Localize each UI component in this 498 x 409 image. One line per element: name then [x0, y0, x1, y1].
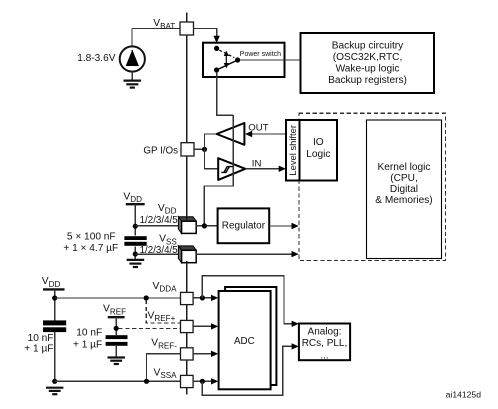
svg-text:Logic: Logic: [306, 149, 330, 160]
wire switch supply to IO buffers and VDD rail: [204, 72, 233, 226]
wire junction to IN buffer: [205, 149, 219, 169]
power switch box: [203, 43, 285, 77]
svg-text:Regulator: Regulator: [222, 221, 266, 232]
wire VDDA to analog block: [202, 276, 293, 324]
ground battery: [124, 81, 142, 88]
ground bottom left: [46, 388, 63, 395]
ground C3: [108, 358, 125, 365]
schmitt hysteresis glyph: [221, 167, 234, 173]
arrowhead OUT: [245, 131, 252, 137]
pin VSSA: [181, 375, 194, 387]
svg-text:(OSC32K,RTC,: (OSC32K,RTC,: [333, 52, 403, 63]
junction ground bottom: [52, 379, 57, 384]
svg-text:Wake-up logic: Wake-up logic: [336, 63, 400, 74]
svg-text:ADC: ADC: [234, 336, 255, 347]
svg-text:VREF: VREF: [103, 304, 126, 317]
power switch toggle arrow: [224, 51, 229, 69]
label kernel logic: [375, 162, 432, 206]
svg-text:Backup circuitry: Backup circuitry: [332, 40, 404, 51]
dashed VREF to VREF+: [119, 327, 181, 329]
svg-text:IN: IN: [252, 158, 262, 169]
svg-text:& Memories): & Memories): [375, 195, 432, 206]
wire bus VBAT to GP I/Os: [186, 35, 188, 143]
capacitor C3 (10nF + 1uF): [106, 335, 128, 346]
arrowhead VSS: [292, 251, 299, 257]
junction VDD bottom: [52, 295, 57, 300]
wire regulator to kernel: [269, 225, 293, 227]
wire bus VREF+ to VREF-: [186, 333, 188, 348]
wire bus GP to VDD pin: [186, 156, 188, 221]
power switch bottom contact: [214, 67, 219, 72]
junction VSSA right: [200, 379, 205, 384]
ground C1: [127, 260, 145, 267]
svg-text:10 nF: 10 nF: [28, 333, 54, 344]
wire VSS junction to pin: [135, 253, 181, 255]
arrowhead VSSA analog: [292, 343, 299, 349]
op-amp OUT buffer: [217, 123, 245, 145]
svg-text:...: ...: [320, 351, 328, 362]
wire power switch to backup circuitry: [240, 59, 301, 61]
svg-text:VDD: VDD: [158, 203, 177, 216]
wire VDDA to ADC: [193, 297, 212, 299]
rail VDD bottom: [43, 288, 65, 290]
ADC back rectangle: [225, 287, 276, 385]
pin VDD 1-5 (cube): [178, 217, 196, 234]
arrowhead into power switch: [213, 36, 219, 43]
svg-text:Analog:: Analog:: [308, 327, 342, 338]
node VBAT pin: [180, 22, 194, 35]
svg-text:+ 1 µF: + 1 µF: [73, 340, 102, 351]
svg-text:OUT: OUT: [248, 122, 268, 133]
wire VDDA line: [55, 297, 181, 299]
svg-text:1/2/3/4/5: 1/2/3/4/5: [140, 215, 179, 226]
wire battery to ground: [131, 72, 133, 81]
wire VREF- to ADC: [193, 353, 212, 355]
pin VREF+: [181, 320, 194, 332]
wire supply through buffers: [232, 117, 234, 185]
wire IN to level shifter: [245, 168, 279, 170]
svg-text:VDDA: VDDA: [153, 281, 178, 294]
power switch common contact: [235, 57, 240, 62]
dashed VDDA to VREF+: [146, 300, 180, 323]
wire VREF down: [115, 317, 117, 335]
svg-text:VREF-: VREF-: [151, 338, 177, 351]
junction VREF+ tap: [144, 295, 149, 300]
junction VDDA right: [200, 295, 205, 300]
junction VREF- ground: [144, 379, 149, 384]
power switch lever: [217, 60, 238, 70]
capacitor C2 (10nF + 1uF): [43, 320, 66, 332]
op-amp IN buffer (schmitt): [218, 158, 245, 180]
junction VSS: [133, 251, 138, 256]
svg-text:Level shifter: Level shifter: [287, 125, 298, 176]
pin VSS 1-5 (cube): [178, 246, 196, 263]
arrowhead VDDA ADC: [211, 295, 218, 301]
arrowhead IN: [279, 166, 286, 172]
svg-text:VDD: VDD: [123, 191, 142, 204]
label analog: [302, 327, 348, 362]
svg-text:Kernel logic: Kernel logic: [378, 162, 431, 173]
wire VDD pin to regulator: [196, 225, 217, 227]
svg-text:1.8-3.6V: 1.8-3.6V: [77, 53, 116, 64]
rail VDD mid: [126, 203, 145, 205]
pin VDDA: [181, 292, 194, 304]
svg-text:Backup registers): Backup registers): [328, 75, 407, 86]
arrowhead VSSA ADC: [211, 378, 218, 384]
level shifter block: [286, 120, 300, 181]
wire bus VREF- to VSSA: [186, 360, 188, 375]
node GP I/Os pin: [181, 143, 194, 156]
svg-text:Digital: Digital: [390, 184, 418, 195]
capacitor C1 (5x100nF + 4.7uF): [124, 236, 146, 246]
wire bus VSSA stub: [186, 388, 188, 395]
svg-text:RCs, PLL,: RCs, PLL,: [302, 338, 348, 349]
wire cap to ground: [134, 246, 136, 259]
wire VSSA to ADC: [193, 380, 212, 382]
label backup circuitry: [328, 40, 407, 86]
junction VDD: [133, 224, 138, 229]
wire OUT from level shifter: [251, 133, 286, 135]
pin VREF-: [181, 348, 194, 360]
svg-text:1/2/3/4/5: 1/2/3/4/5: [140, 245, 179, 256]
junction GP I/O: [202, 147, 207, 152]
wire VSSA to analog block: [202, 346, 293, 395]
kernel logic block: [367, 120, 442, 259]
svg-text:GP I/Os: GP I/Os: [143, 146, 178, 157]
wire VDD junction to pin: [135, 225, 181, 227]
svg-text:+ 1 µF: + 1 µF: [24, 343, 53, 354]
power switch dashed position: [219, 50, 234, 57]
wire VBAT stub: [186, 13, 188, 24]
svg-text:VREF+: VREF+: [148, 310, 176, 323]
wire VSSA line: [55, 380, 181, 382]
power switch top contact: [214, 46, 219, 51]
ADC front rectangle: [219, 291, 271, 389]
svg-text:Power switch: Power switch: [240, 51, 281, 58]
svg-text:10 nF: 10 nF: [76, 328, 102, 339]
wire C3 to ground: [115, 346, 117, 357]
IO logic block: [300, 120, 338, 181]
wire bus VDDA to VREF+: [186, 305, 188, 321]
rail VREF: [108, 316, 125, 318]
svg-text:5 × 100 nF: 5 × 100 nF: [67, 232, 116, 243]
analog block: [299, 324, 350, 361]
arrowhead regulator out: [292, 223, 299, 229]
label IO logic: [306, 137, 330, 160]
wire VSS to kernel: [196, 253, 293, 255]
wire VBAT pin to power switch: [194, 29, 217, 37]
kernel logic dashed region: [299, 113, 446, 260]
wire junction to OUT buffer: [205, 134, 217, 149]
wire VDD rail down: [134, 204, 136, 235]
wire VREF- to ground line: [147, 354, 181, 382]
wire VREF+ to ADC: [193, 325, 212, 327]
wire C2 to ground: [54, 332, 56, 381]
wire bus VSS to VDDA: [186, 261, 188, 292]
svg-text:(CPU,: (CPU,: [390, 173, 418, 184]
svg-text:VBAT: VBAT: [153, 18, 175, 31]
voltage source 1.8-3.6V: [120, 46, 145, 71]
junction regulator in: [202, 223, 207, 228]
backup circuitry block: [301, 33, 435, 93]
svg-text:ai14125d: ai14125d: [446, 389, 482, 399]
svg-text:+ 1 × 4.7 µF: + 1 × 4.7 µF: [63, 243, 118, 254]
arrowhead VDDA analog: [292, 321, 299, 327]
wire GP pin to junction: [194, 148, 205, 150]
svg-text:VDD: VDD: [42, 276, 61, 289]
svg-text:VSSA: VSSA: [154, 367, 178, 380]
regulator block: [218, 208, 270, 243]
wire battery to VBAT pin: [132, 29, 180, 47]
junction VREF: [114, 326, 119, 331]
svg-text:IO: IO: [313, 137, 324, 148]
wire rail down: [54, 289, 56, 320]
arrowhead VREF+ ADC: [211, 323, 218, 329]
arrowhead VREF- ADC: [211, 351, 218, 357]
